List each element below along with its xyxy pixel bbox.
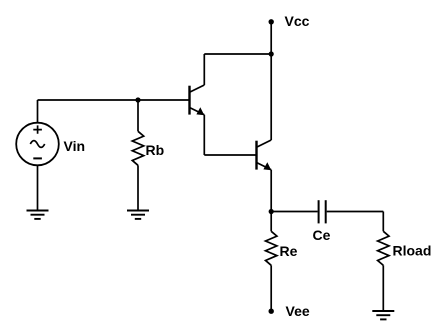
transistor Q2 — [257, 140, 272, 170]
wire Q2 emitter down — [270, 170, 272, 212]
wire Vin top lead — [37, 100, 39, 123]
ground (Rb) — [127, 211, 149, 219]
wire node to capacitor — [271, 211, 317, 213]
resistor Rb — [132, 131, 143, 165]
svg-text:Rb: Rb — [146, 142, 165, 158]
wire Q1 collector up — [203, 54, 205, 85]
wire Q1 emitter down — [203, 115, 205, 155]
wire Rb top lead — [137, 100, 139, 131]
wire Q1 emitter to Q2 base — [204, 154, 256, 156]
svg-text:Vee: Vee — [286, 303, 310, 319]
svg-text:Re: Re — [280, 243, 298, 259]
junction top rail — [269, 51, 274, 56]
resistor Re — [266, 231, 277, 265]
svg-text:Vcc: Vcc — [285, 13, 310, 29]
junction emitter node — [269, 209, 274, 214]
wire Vcc to Q2 collector — [270, 54, 272, 140]
wire Rload top lead — [382, 212, 384, 232]
wire Rload bottom lead — [382, 265, 384, 311]
AC source Vin — [16, 123, 59, 166]
svg-text:Rload: Rload — [393, 243, 432, 259]
power terminal Vee — [269, 309, 274, 314]
svg-text:Ce: Ce — [313, 227, 331, 243]
transistor Q1 — [190, 85, 205, 115]
wire Rb bottom lead — [137, 165, 139, 210]
wire Vcc down — [270, 22, 272, 55]
wire capacitor to Rload — [327, 211, 384, 213]
junction input/Rb — [135, 97, 140, 102]
wire input net — [38, 99, 190, 101]
ground (Vin) — [27, 211, 49, 219]
wire Re top lead — [270, 212, 272, 232]
wire top rail — [204, 53, 271, 55]
ground (Rload) — [372, 311, 394, 319]
svg-text:Vin: Vin — [64, 138, 86, 154]
resistor Rload — [378, 231, 389, 265]
capacitor Ce — [319, 200, 326, 223]
wire Vin bottom lead — [37, 165, 39, 210]
power terminal Vcc — [269, 19, 274, 24]
wire Re bottom lead — [270, 265, 272, 311]
